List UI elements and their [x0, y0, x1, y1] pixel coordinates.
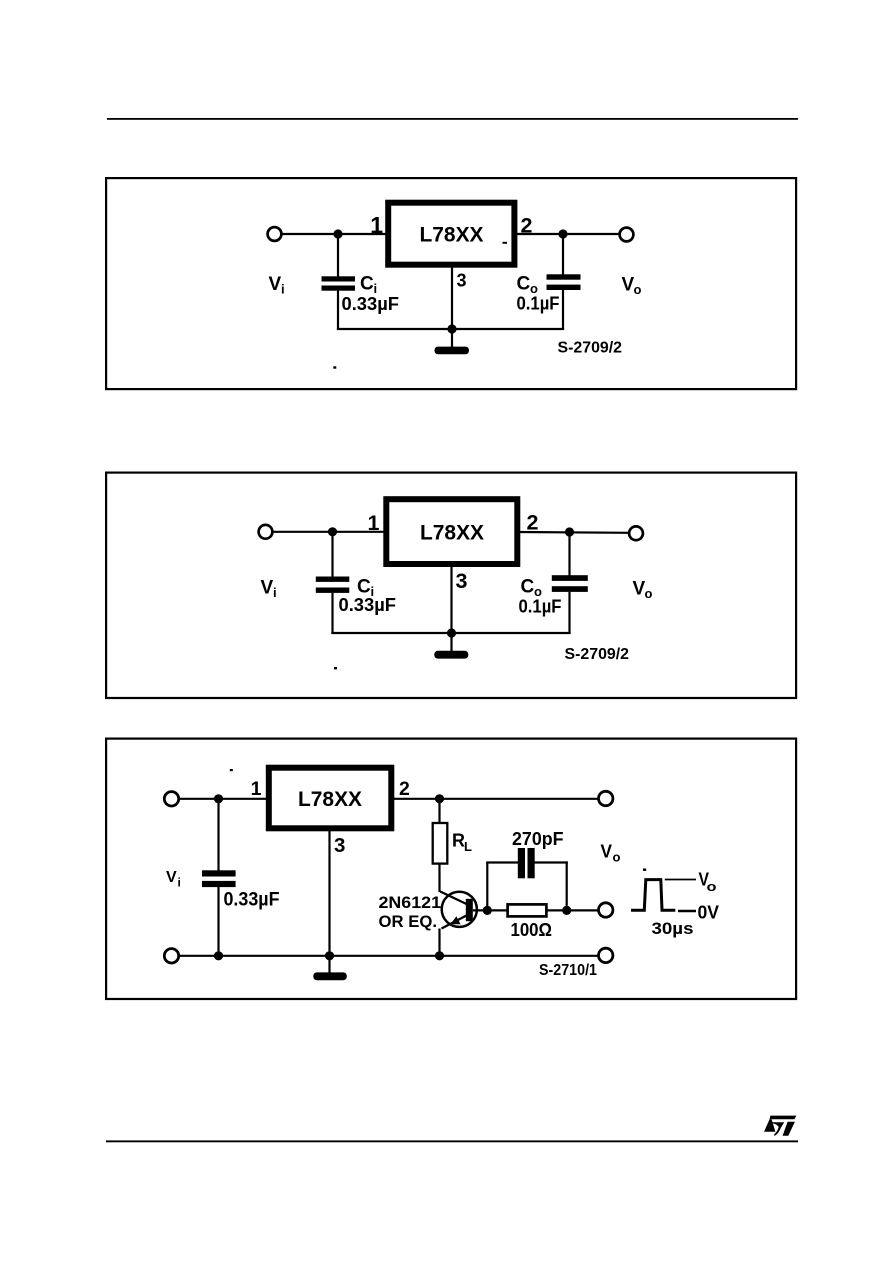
svg-text:2: 2 — [521, 214, 533, 238]
svg-text:2: 2 — [527, 511, 539, 535]
svg-text:3: 3 — [334, 834, 345, 857]
svg-text:2N6121: 2N6121 — [379, 893, 442, 912]
svg-text:V: V — [261, 578, 274, 599]
svg-text:o: o — [645, 586, 653, 601]
svg-text:S-2710/1: S-2710/1 — [539, 962, 597, 979]
svg-text:L78XX: L78XX — [420, 522, 484, 545]
svg-text:L: L — [464, 839, 472, 854]
svg-text:C: C — [360, 274, 374, 295]
svg-text:0V: 0V — [698, 903, 720, 923]
svg-text:1: 1 — [251, 778, 262, 800]
svg-text:0.33µF: 0.33µF — [342, 293, 400, 314]
svg-text:V: V — [269, 274, 282, 295]
svg-text:i: i — [281, 282, 285, 297]
svg-text:o: o — [707, 879, 717, 894]
svg-text:3: 3 — [457, 271, 467, 291]
svg-text:L78XX: L78XX — [420, 223, 484, 246]
svg-text:2: 2 — [399, 778, 410, 800]
svg-text:30µs: 30µs — [652, 919, 694, 938]
svg-text:3: 3 — [456, 569, 468, 593]
svg-text:0.1µF: 0.1µF — [517, 293, 560, 314]
svg-text:0.33µF: 0.33µF — [339, 594, 397, 615]
svg-text:S-2709/2: S-2709/2 — [558, 340, 623, 357]
svg-text:V: V — [166, 869, 177, 886]
svg-text:OR EQ.: OR EQ. — [379, 912, 438, 931]
svg-text:1: 1 — [370, 212, 383, 238]
svg-text:100Ω: 100Ω — [511, 920, 553, 940]
svg-text:C: C — [521, 577, 535, 598]
svg-text:1: 1 — [368, 511, 380, 535]
svg-text:0.33µF: 0.33µF — [224, 890, 280, 911]
svg-text:S-2709/2: S-2709/2 — [565, 646, 630, 663]
svg-text:0.1µF: 0.1µF — [519, 596, 562, 617]
svg-text:i: i — [273, 585, 277, 600]
svg-text:i: i — [178, 876, 181, 890]
svg-text:V: V — [601, 842, 613, 862]
svg-text:C: C — [517, 274, 531, 295]
svg-text:270pF: 270pF — [512, 829, 564, 849]
svg-text:o: o — [613, 850, 621, 865]
svg-text:L78XX: L78XX — [298, 788, 362, 811]
svg-text:o: o — [634, 282, 642, 297]
